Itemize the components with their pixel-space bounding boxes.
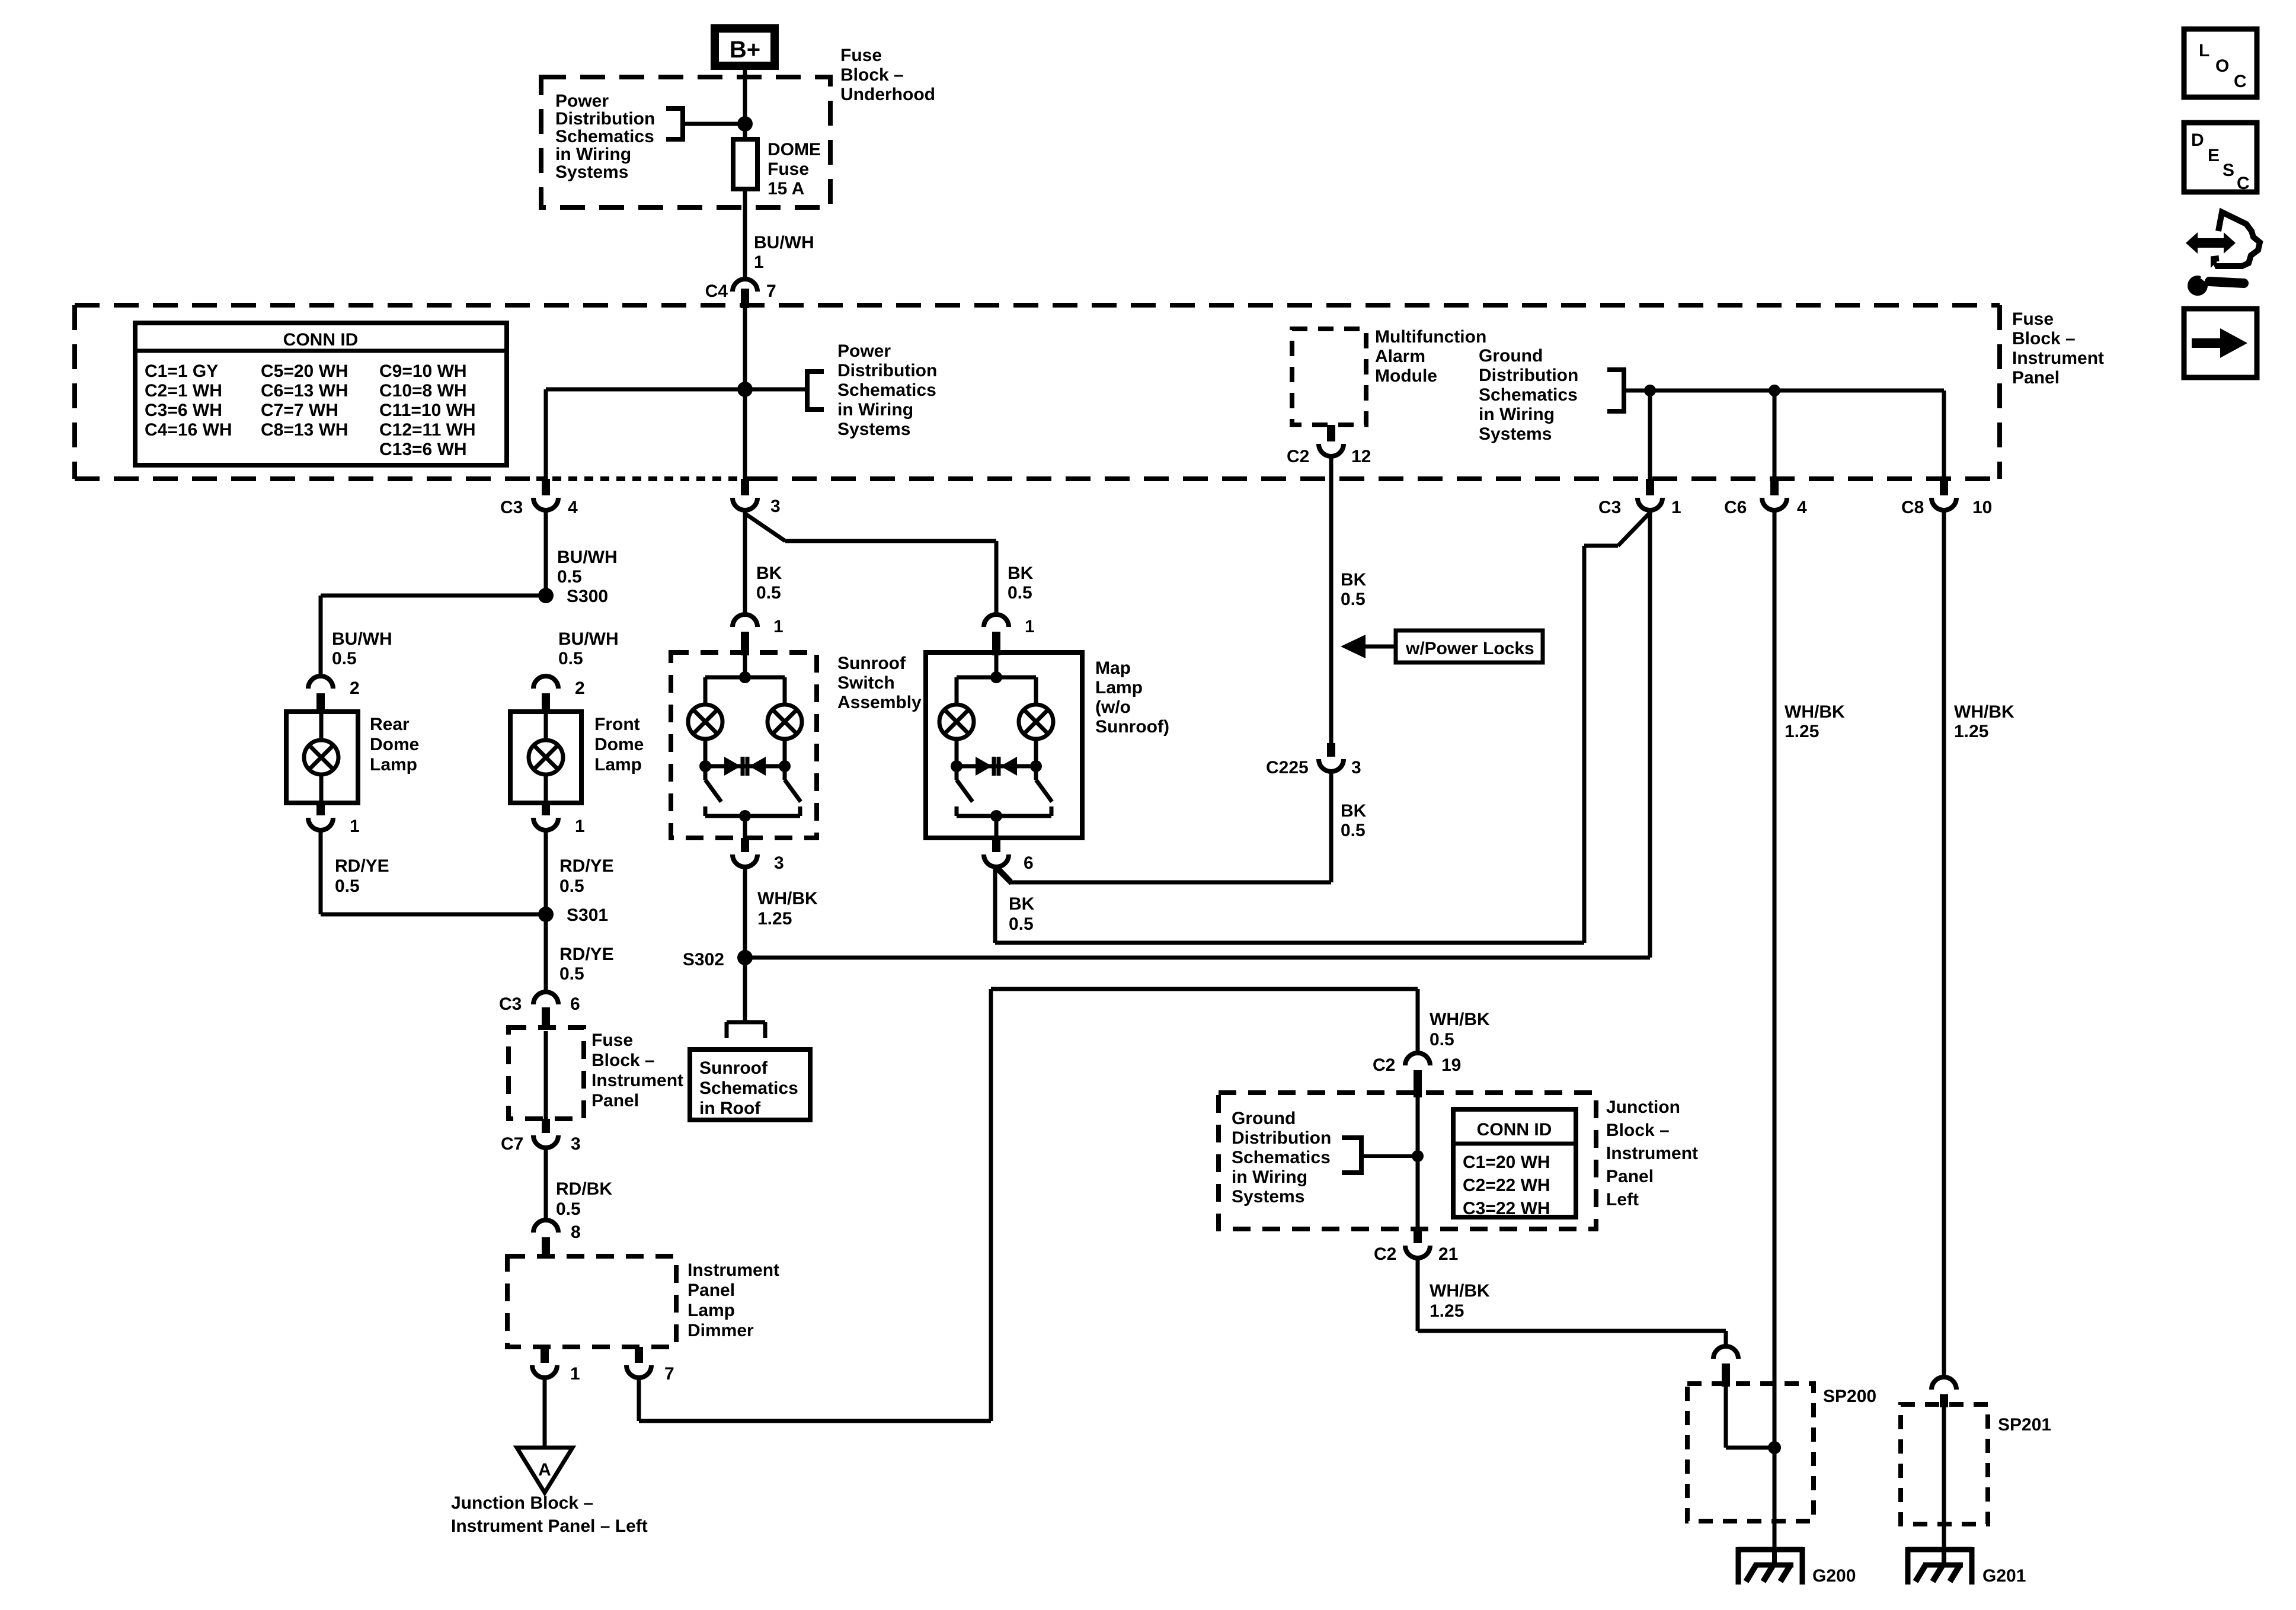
svg-text:C2=1 WH: C2=1 WH [145, 381, 222, 401]
svg-text:C4=16 WH: C4=16 WH [145, 420, 232, 440]
svg-text:C9=10 WH: C9=10 WH [379, 361, 467, 381]
svg-text:0.5: 0.5 [335, 876, 360, 896]
svg-text:C2: C2 [1374, 1244, 1396, 1264]
svg-text:6: 6 [570, 994, 580, 1014]
svg-text:Distribution: Distribution [1232, 1128, 1331, 1148]
svg-text:S: S [2223, 161, 2234, 180]
svg-text:Systems: Systems [555, 162, 628, 182]
svg-text:C2: C2 [1373, 1055, 1395, 1075]
svg-text:Power: Power [837, 341, 891, 361]
svg-text:0.5: 0.5 [1008, 583, 1032, 603]
svg-text:Instrument: Instrument [2012, 348, 2104, 368]
svg-text:1: 1 [1025, 617, 1035, 636]
svg-text:BU/WH: BU/WH [557, 548, 618, 567]
svg-text:C13=6 WH: C13=6 WH [379, 440, 467, 459]
svg-text:C: C [2237, 174, 2250, 193]
svg-text:2: 2 [575, 678, 585, 698]
svg-text:3: 3 [1351, 758, 1361, 777]
svg-text:Lamp: Lamp [1095, 678, 1143, 697]
svg-text:Block –: Block – [1606, 1121, 1670, 1140]
svg-text:Panel: Panel [687, 1281, 735, 1300]
svg-text:3: 3 [770, 497, 781, 516]
svg-text:Left: Left [1606, 1190, 1639, 1209]
svg-text:C225: C225 [1266, 758, 1309, 777]
svg-text:3: 3 [571, 1134, 581, 1154]
svg-text:15 A: 15 A [768, 179, 804, 199]
svg-text:0.5: 0.5 [1009, 914, 1034, 934]
svg-text:Schematics: Schematics [699, 1078, 798, 1098]
svg-text:1.25: 1.25 [1430, 1301, 1464, 1321]
svg-text:Panel: Panel [591, 1091, 639, 1110]
svg-text:C2: C2 [1287, 447, 1309, 466]
svg-text:Dome: Dome [594, 735, 644, 754]
svg-text:Lamp: Lamp [687, 1301, 735, 1320]
svg-text:L: L [2199, 41, 2209, 60]
svg-text:Power: Power [555, 91, 609, 111]
svg-text:Schematics: Schematics [1479, 385, 1578, 405]
svg-text:Sunroof): Sunroof) [1095, 717, 1169, 737]
svg-text:Dimmer: Dimmer [687, 1321, 754, 1340]
svg-text:C1=1 GY: C1=1 GY [145, 361, 218, 381]
svg-text:1.25: 1.25 [1954, 722, 1988, 741]
svg-text:C3: C3 [500, 498, 523, 517]
svg-text:BU/WH: BU/WH [558, 629, 619, 649]
svg-text:Systems: Systems [1232, 1187, 1304, 1206]
svg-text:RD/YE: RD/YE [559, 856, 614, 876]
svg-text:Block –: Block – [2012, 329, 2076, 348]
svg-text:C4: C4 [705, 281, 728, 301]
svg-text:Distribution: Distribution [555, 109, 655, 129]
svg-text:Instrument: Instrument [1606, 1144, 1698, 1163]
svg-text:C11=10 WH: C11=10 WH [379, 401, 476, 420]
svg-text:Fuse: Fuse [840, 46, 882, 65]
svg-text:1: 1 [1671, 498, 1681, 517]
svg-text:RD/BK: RD/BK [556, 1179, 612, 1199]
svg-text:WH/BK: WH/BK [757, 889, 818, 908]
svg-text:C6: C6 [1724, 498, 1747, 517]
svg-text:0.5: 0.5 [1341, 590, 1366, 609]
svg-text:SP200: SP200 [1823, 1387, 1876, 1406]
svg-text:2: 2 [350, 678, 360, 698]
svg-text:C2=22 WH: C2=22 WH [1463, 1176, 1550, 1195]
svg-text:in Wiring: in Wiring [1232, 1167, 1307, 1187]
svg-text:C5=20 WH: C5=20 WH [261, 361, 348, 381]
svg-text:C1=20 WH: C1=20 WH [1463, 1153, 1550, 1172]
svg-text:(w/o: (w/o [1095, 697, 1131, 717]
svg-text:C3: C3 [499, 994, 522, 1014]
svg-text:Fuse: Fuse [2012, 309, 2054, 329]
svg-text:Lamp: Lamp [370, 755, 417, 774]
svg-text:O: O [2215, 56, 2229, 76]
svg-text:Ground: Ground [1232, 1109, 1296, 1128]
svg-text:0.5: 0.5 [559, 876, 584, 896]
svg-text:DOME: DOME [768, 140, 821, 159]
svg-text:12: 12 [1351, 447, 1371, 466]
svg-text:Distribution: Distribution [1479, 366, 1578, 385]
svg-text:Panel: Panel [1606, 1167, 1654, 1186]
svg-text:C3: C3 [1598, 498, 1621, 517]
svg-text:in Wiring: in Wiring [1479, 405, 1555, 424]
svg-text:BU/WH: BU/WH [754, 233, 814, 252]
svg-text:BK: BK [1009, 894, 1035, 914]
svg-text:RD/YE: RD/YE [335, 856, 389, 876]
svg-text:E: E [2208, 146, 2220, 165]
svg-text:Block –: Block – [840, 65, 904, 85]
svg-text:CONN ID: CONN ID [1477, 1120, 1552, 1140]
svg-text:SP201: SP201 [1998, 1415, 2051, 1435]
svg-text:0.5: 0.5 [557, 567, 582, 587]
svg-text:Schematics: Schematics [1232, 1148, 1331, 1167]
svg-text:BK: BK [1008, 564, 1034, 583]
svg-text:0.5: 0.5 [1341, 821, 1366, 840]
svg-text:S300: S300 [567, 587, 608, 606]
svg-text:4: 4 [1797, 498, 1807, 517]
svg-text:C12=11 WH: C12=11 WH [379, 420, 476, 440]
svg-text:WH/BK: WH/BK [1785, 702, 1845, 722]
svg-text:Instrument: Instrument [687, 1260, 779, 1280]
svg-text:0.5: 0.5 [558, 649, 583, 668]
svg-text:Junction: Junction [1606, 1097, 1680, 1117]
svg-text:21: 21 [1438, 1244, 1458, 1264]
svg-text:6: 6 [1024, 853, 1034, 873]
svg-text:Systems: Systems [1479, 424, 1552, 444]
svg-text:C7=7 WH: C7=7 WH [261, 401, 338, 420]
svg-text:Underhood: Underhood [840, 85, 935, 104]
svg-text:C3=6 WH: C3=6 WH [145, 401, 222, 420]
svg-text:Lamp: Lamp [594, 755, 642, 774]
svg-text:Fuse: Fuse [768, 159, 809, 179]
svg-text:RD/YE: RD/YE [559, 945, 614, 964]
svg-text:Schematics: Schematics [837, 380, 936, 400]
svg-text:0.5: 0.5 [1430, 1030, 1454, 1049]
svg-text:WH/BK: WH/BK [1954, 702, 2014, 722]
svg-text:19: 19 [1441, 1055, 1461, 1075]
svg-text:Sunroof: Sunroof [837, 654, 906, 673]
svg-text:in Wiring: in Wiring [837, 400, 913, 420]
svg-text:CONN ID: CONN ID [283, 330, 359, 350]
svg-text:A: A [538, 1460, 551, 1480]
svg-text:Distribution: Distribution [837, 361, 937, 380]
svg-text:Assembly: Assembly [837, 693, 922, 712]
svg-text:7: 7 [766, 281, 776, 301]
svg-text:0.5: 0.5 [559, 964, 584, 984]
svg-text:Module: Module [1375, 366, 1437, 386]
svg-text:C8=13 WH: C8=13 WH [261, 420, 348, 440]
svg-text:Systems: Systems [837, 420, 910, 439]
svg-text:Junction Block –: Junction Block – [451, 1493, 593, 1513]
svg-text:Alarm: Alarm [1375, 347, 1425, 366]
svg-text:Ground: Ground [1479, 346, 1543, 366]
svg-text:B+: B+ [730, 37, 760, 63]
svg-text:1: 1 [575, 817, 585, 836]
svg-text:0.5: 0.5 [332, 649, 357, 668]
svg-text:BU/WH: BU/WH [332, 629, 392, 649]
svg-text:Schematics: Schematics [555, 127, 654, 146]
svg-text:10: 10 [1972, 498, 1992, 517]
svg-text:1: 1 [570, 1364, 580, 1384]
svg-text:w/Power Locks: w/Power Locks [1405, 639, 1534, 658]
svg-text:0.5: 0.5 [756, 583, 781, 603]
svg-text:Instrument Panel – Left: Instrument Panel – Left [451, 1516, 648, 1536]
svg-text:1: 1 [773, 617, 784, 636]
svg-text:1: 1 [754, 252, 764, 272]
svg-text:BK: BK [1341, 570, 1367, 590]
svg-text:Map: Map [1095, 658, 1131, 678]
svg-text:C6=13 WH: C6=13 WH [261, 381, 348, 401]
svg-text:D: D [2191, 130, 2204, 150]
svg-text:C10=8 WH: C10=8 WH [379, 381, 467, 401]
svg-text:1.25: 1.25 [1785, 722, 1819, 741]
svg-text:Block –: Block – [591, 1051, 655, 1070]
svg-text:BK: BK [756, 564, 782, 583]
svg-text:0.5: 0.5 [556, 1199, 581, 1219]
svg-text:3: 3 [774, 853, 784, 873]
svg-text:C7: C7 [501, 1134, 523, 1154]
svg-text:WH/BK: WH/BK [1430, 1010, 1490, 1029]
svg-text:G200: G200 [1812, 1566, 1856, 1586]
svg-text:7: 7 [664, 1364, 674, 1384]
svg-text:Panel: Panel [2012, 368, 2060, 388]
svg-text:WH/BK: WH/BK [1430, 1281, 1490, 1301]
svg-text:Dome: Dome [370, 735, 419, 754]
svg-text:Sunroof: Sunroof [699, 1058, 768, 1078]
svg-text:S302: S302 [683, 950, 724, 969]
svg-text:in Wiring: in Wiring [555, 145, 631, 164]
svg-text:Front: Front [594, 715, 640, 734]
svg-text:Switch: Switch [837, 673, 895, 693]
svg-text:1: 1 [350, 817, 360, 836]
svg-text:4: 4 [568, 498, 578, 517]
svg-text:S301: S301 [567, 905, 608, 925]
svg-text:C8: C8 [1901, 498, 1924, 517]
svg-text:C3=22 WH: C3=22 WH [1463, 1199, 1550, 1218]
svg-text:Rear: Rear [370, 715, 410, 734]
svg-text:Multifunction: Multifunction [1375, 327, 1486, 347]
svg-text:C: C [2234, 72, 2247, 91]
svg-text:Instrument: Instrument [591, 1071, 683, 1090]
svg-text:G201: G201 [1982, 1566, 2026, 1586]
svg-text:1.25: 1.25 [757, 909, 792, 929]
svg-text:Fuse: Fuse [591, 1030, 633, 1050]
svg-text:BK: BK [1341, 801, 1367, 821]
svg-text:8: 8 [571, 1222, 581, 1242]
svg-text:in Roof: in Roof [699, 1099, 761, 1118]
